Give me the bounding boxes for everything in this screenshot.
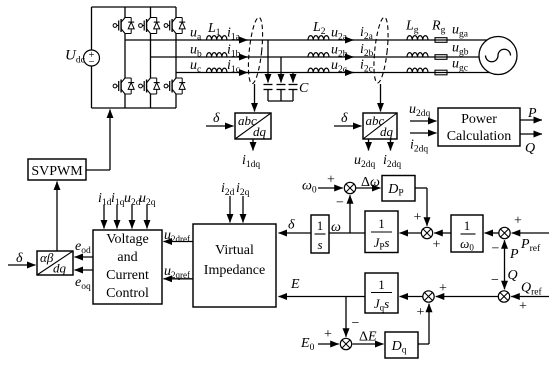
wire: D_q output up to junction 5 [428,304,430,344]
wire: abc/dq 1 output i_1dq [252,139,254,151]
svg-text:−: − [491,273,499,288]
wire: i_2d input [229,196,231,223]
svg-text:C: C [299,81,309,96]
current arrow i_2b [345,56,354,58]
wire: inverter leg 1 lower [124,94,126,108]
capacitor C branch [277,84,286,86]
wire: junction 5 to 1/Jqs [400,296,423,298]
damping block D_q [385,332,418,358]
svg-text:1: 1 [317,218,324,233]
inductor L2 phase a [308,36,329,40]
wire: 1/omega0 to junction 2 [434,232,451,234]
abc/dq transform block 1 [235,113,271,139]
wire: inverter leg 2 middle [150,34,152,79]
capacitor C branch [289,84,298,86]
wire: sensor 1 to abc/dq [254,84,256,112]
wire: inverter leg 3 lower [175,94,177,108]
transistor Q3 (top IGBT leg 3) [164,18,185,34]
inductor L2 phase c [308,68,329,72]
svg-text:1: 1 [464,218,471,233]
inductor L1 phase a [207,36,227,40]
summing junction 2 [421,227,432,238]
wire: D_q output horizontal [418,343,429,345]
wire: inverter leg 3 upper [175,7,177,18]
svg-text:+: + [439,281,447,296]
svg-text:E: E [290,277,300,292]
svg-text:Voltage: Voltage [106,232,149,247]
wire: phase a [125,39,487,41]
wire: e_od [75,256,94,258]
Voltage and Current Control block [93,230,162,304]
svg-text:Calculation: Calculation [447,129,512,144]
wire: capacitor neutral bus [268,100,293,102]
wire: SVPWM to inverter horizontal [86,169,110,171]
capacitor C branch [264,84,273,86]
svg-text:Virtual: Virtual [215,243,254,258]
svg-text:−: − [88,56,94,68]
wire: inverter leg 2 lower [150,94,152,108]
svg-text:s: s [317,237,322,252]
wire: SVPWM to inverter riser [109,110,111,171]
wire: phase b [151,56,480,58]
svg-text:dq: dq [380,124,394,139]
svg-text:+: + [324,327,332,342]
Power Calculation block [438,108,520,146]
integrator block 1/s [311,215,329,253]
current arrow i_1c [238,72,248,74]
summing junction 1 (omega0 - omega) [344,182,355,193]
wire: delta into ab/dq [8,264,36,266]
summing junction 6 (Q_ref - Q) [498,291,509,302]
wire: u_2d input [131,205,133,229]
wire: DC bus bottom rail [92,107,177,109]
wire: ab/dq to SVPWM [56,182,58,252]
wire: u_2dq into Power Calculation [410,120,437,122]
svg-text:ΔE: ΔE [359,330,377,345]
wire: e_oq [75,269,94,271]
svg-text:1: 1 [378,277,385,292]
wire: i_2q input [242,196,244,223]
svg-text:Power: Power [461,112,497,127]
wire: E0 into junction 4 [318,343,339,345]
svg-text:δ: δ [341,111,348,126]
wire: abc/dq 2 output i_2dq [390,139,392,151]
wire: Q down into junction 6 [504,262,506,289]
inductor Lg phase b [407,53,428,57]
wire: delta to abc/dq 2 [334,125,362,127]
resistor Rg phase b [435,55,447,60]
inductor L2 phase b [308,53,329,57]
wire: u_2qref [164,278,194,280]
wire: omega from 1/JPs to 1/s [329,232,365,234]
wire: sensor 2 to abc/dq [380,84,382,112]
svg-text:Q: Q [525,141,535,156]
transistor Q6 (bottom IGBT leg 3) [164,78,185,94]
wire: cap branch [267,40,269,83]
wire: phase c [176,72,490,74]
SVPWM block [28,159,86,180]
wire: E from 1/Jqs to Virtual Impedance [279,296,366,298]
svg-text:+: + [414,210,422,225]
current arrow i_1b [238,56,248,58]
gain block 1/omega0 [451,215,483,252]
svg-text:−: − [492,242,500,257]
svg-text:δ: δ [288,218,295,233]
wire: D_P output horizontal [415,187,427,189]
Virtual Impedance block [193,224,276,307]
svg-text:P: P [509,247,519,262]
wire: cap branch [292,73,294,83]
wire: DC bus left lower [91,66,93,108]
current arrow i_2a [345,39,354,41]
wire: DC bus top rail [92,6,177,8]
svg-text:+: + [327,173,335,188]
wire: Delta E to D_q [353,343,384,345]
wire: u_2q input [146,205,148,229]
wire: inverter leg 1 middle [124,34,126,79]
wire: inverter leg 3 middle [175,34,177,79]
wire: i_2dq into Power Calculation [410,132,437,134]
svg-text:Impedance: Impedance [204,263,265,278]
wire: delta to abc/dq 1 [206,125,234,127]
inertia block 1/(J_q s) [365,273,398,313]
wire: delta-omega to D_P [356,187,381,189]
wire: i_1q input [116,205,118,229]
inductor Lg phase c [407,68,428,72]
wire: cap branch [280,57,282,83]
resistor Rg phase a [435,38,447,43]
abc/dq transform block 2 [363,113,397,139]
wire: omega feedback tap up [349,195,351,233]
transistor Q4 (bottom IGBT leg 1) [113,78,134,94]
grid AC source [479,37,517,75]
wire: inverter leg 1 upper [124,7,126,18]
svg-text:δ: δ [16,251,23,266]
svg-text:Q: Q [508,268,518,283]
wire: P output [520,119,542,121]
svg-text:Control: Control [106,286,149,301]
alpha-beta/dq transform block [37,251,73,275]
svg-text:and: and [117,250,137,265]
wire: delta from 1/s to Virtual Impedance [279,232,312,234]
svg-text:dq: dq [253,124,267,139]
wire: DC bus left upper [91,7,93,50]
svg-text:+: + [519,299,527,314]
wire: inverter leg 2 upper [150,7,152,18]
inductor L1 phase c [207,68,227,72]
wire: P up into junction 3 [504,240,506,262]
wire: Q output [520,133,542,135]
wire: Q_ref input [511,296,549,298]
svg-text:+: + [433,238,441,253]
wire: P_ref input [512,232,549,234]
wire: junction 3 to 1/omega0 [485,232,499,234]
svg-text:Δω: Δω [361,175,380,190]
inductor Lg phase a [407,36,428,40]
wire: D_P output down to junction 2 [426,188,428,226]
svg-text:1: 1 [378,216,385,231]
svg-text:+: + [417,305,425,320]
wire: junction 2 to 1/JPs [400,232,422,234]
inductor L1 phase b [207,53,227,57]
inertia block 1/(J_P s) [365,211,398,253]
wire: u_2dref [164,241,194,243]
svg-text:P: P [527,106,537,121]
wire: abc/dq 2 output u_2dq [368,139,370,151]
current arrow i_2c [345,72,354,74]
wire: omega0 into junction 1 [318,187,343,189]
svg-text:+: + [514,214,522,229]
damping block D_P [382,176,415,202]
current arrow i_1a [238,39,248,41]
wire: i_1d input [103,205,105,229]
transistor Q5 (bottom IGBT leg 2) [139,78,160,94]
resistor Rg phase c [435,70,447,75]
svg-text:SVPWM: SVPWM [31,164,83,179]
svg-text:Current: Current [106,268,149,283]
summing junction 5 [423,291,434,302]
DC source U_dc [84,50,100,66]
transistor Q2 (top IGBT leg 2) [139,18,160,34]
measurement ellipse 2 (voltage/current sensing) [371,17,390,84]
summing junction 4 (E0 - E) [340,338,351,349]
svg-text:αβ: αβ [40,250,54,265]
measurement ellipse 1 (current sensing) [246,17,265,85]
wire: junction 6 to junction 5 [436,296,499,298]
transistor Q1 (top IGBT leg 1) [113,18,134,34]
wire: E feedback tap down [345,297,347,337]
svg-text:δ: δ [213,111,220,126]
svg-text:dq: dq [53,261,67,276]
summing junction 3 (P_ref - P) [499,227,510,238]
svg-text:ω: ω [331,220,341,235]
svg-text:−: − [336,196,344,211]
